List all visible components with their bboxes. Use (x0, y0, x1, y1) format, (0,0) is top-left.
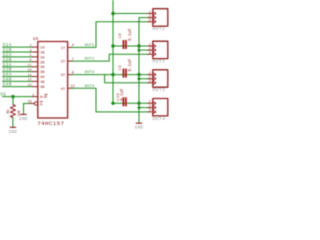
wire C10 row (+5V to GND, OUT4 pin1 feed) (113, 102, 149, 104)
capacitor C10 (123, 97, 127, 106)
svg-text:3B: 3B (40, 71, 45, 75)
svg-text:SG: SG (0, 94, 6, 98)
svg-text:1: 1 (32, 94, 34, 98)
svg-text:4A: 4A (40, 76, 45, 80)
svg-text:0.1uF: 0.1uF (121, 88, 125, 101)
wire C8 row (+5V to GND, OUT2 pin1 feed) (113, 45, 149, 47)
svg-text:3: 3 (30, 48, 32, 52)
pin 2 stub (33, 46, 38, 48)
svg-text:S1B: S1B (3, 49, 12, 53)
wire +5V to OUT1 pin1 (113, 13, 149, 15)
capacitor C9 (123, 69, 127, 78)
junction C10 right (137, 102, 140, 105)
junction on select net (11, 95, 14, 98)
resistor R9 (10, 105, 15, 118)
wire S4A row y=76.5 (3, 76, 33, 78)
wire OUT3 from 3Y (73, 75, 149, 83)
svg-text:11: 11 (28, 63, 32, 67)
wire S2A row y=56.9 (3, 56, 33, 58)
junction GND rail (138, 77, 141, 80)
svg-text:OUT3: OUT3 (152, 87, 165, 93)
junction GND rail (138, 49, 141, 52)
svg-text:0.1uF: 0.1uF (129, 28, 133, 41)
junction C8 right (137, 44, 140, 47)
junction GND rail (138, 106, 141, 109)
svg-text:GND: GND (9, 131, 18, 135)
wire C9 row (+5V to GND, OUT3 pin1 feed) (105, 74, 149, 76)
pin 9 stub (3Y) (68, 74, 73, 76)
connector OUT4 (148, 99, 168, 116)
pin 14 stub (33, 76, 38, 78)
junction +5V / OUT1 feed (111, 12, 114, 15)
wire S4B row y=81.4 (3, 80, 33, 82)
junction C9 left (111, 73, 114, 76)
svg-text:3: 3 (149, 108, 151, 112)
svg-text:OUT2: OUT2 (85, 58, 95, 62)
svg-text:1B: 1B (40, 52, 45, 56)
wire select to resistor (12, 97, 14, 105)
pin 3 stub (33, 51, 38, 53)
svg-text:R9: R9 (7, 109, 11, 113)
wire +5V rail (112, 0, 114, 103)
svg-text:14: 14 (28, 73, 32, 77)
svg-text:OUT4: OUT4 (152, 116, 165, 122)
ground symbol at rail bottom (135, 123, 144, 130)
junction C8 left (111, 44, 114, 47)
svg-text:6: 6 (30, 58, 32, 62)
svg-text:13: 13 (28, 83, 32, 87)
svg-text:2B: 2B (40, 61, 45, 65)
svg-text:4B: 4B (40, 81, 45, 85)
svg-text:OUT2: OUT2 (152, 59, 165, 65)
svg-text:13: 13 (28, 78, 32, 82)
ground symbol below resistor (9, 127, 18, 135)
wire GND to OUT1 pin2 (139, 17, 149, 19)
svg-text:OUT1: OUT1 (152, 26, 165, 32)
svg-text:S3A: S3A (3, 64, 12, 68)
pin 7 stub (2Y) (68, 60, 73, 62)
connector OUT2 (148, 41, 168, 58)
svg-text:C8: C8 (119, 33, 123, 39)
svg-text:2A: 2A (40, 56, 45, 60)
svg-text:3: 3 (149, 18, 151, 22)
wire GND to OUT3 pin2 (139, 78, 149, 80)
connector OUT3 (148, 70, 168, 87)
svg-text:74HC157: 74HC157 (37, 120, 64, 127)
pin 6 stub (33, 61, 38, 63)
svg-text:S4A: S4A (3, 74, 12, 78)
svg-text:2Y: 2Y (61, 61, 66, 65)
svg-text:S4B: S4B (3, 79, 12, 83)
svg-text:5: 5 (30, 53, 32, 57)
svg-text:S3B: S3B (3, 69, 12, 73)
pin 4 stub (1Y) (68, 46, 73, 48)
pin 11 stub (33, 66, 38, 68)
svg-text:GND: GND (135, 126, 144, 130)
svg-text:1Y: 1Y (61, 47, 66, 51)
wire OUT4 from 4Y (73, 88, 149, 112)
svg-text:C9: C9 (119, 65, 123, 71)
svg-text:GND: GND (19, 118, 28, 122)
pin 13 stub (33, 80, 38, 82)
svg-text:3A: 3A (40, 66, 45, 70)
svg-text:OUT3: OUT3 (85, 71, 95, 75)
svg-text:10: 10 (28, 68, 32, 72)
junction C9 right (137, 73, 140, 76)
pin 1 stub (33, 96, 38, 98)
wire to pin 15 (24, 103, 31, 105)
pin 5 stub (33, 56, 38, 58)
wire OUT1 from 1Y (73, 22, 149, 48)
svg-text:0.1uF: 0.1uF (129, 58, 133, 71)
pin 12 stub (4Y) (68, 87, 73, 89)
svg-text:1A: 1A (40, 47, 45, 51)
svg-text:A/B: A/B (40, 95, 48, 100)
wire S2B row y=61.8 (3, 61, 33, 63)
svg-text:4Y: 4Y (61, 88, 66, 92)
svg-text:S4B: S4B (3, 84, 12, 88)
wire GND to OUT2 pin2 (139, 49, 149, 51)
ground symbol at pin 15 (19, 114, 28, 122)
svg-text:3: 3 (149, 51, 151, 55)
svg-text:4B: 4B (40, 86, 45, 90)
wire select net SG (3, 96, 34, 98)
wire resistor to ground (12, 118, 14, 127)
svg-text:15: 15 (28, 101, 32, 105)
wire pin15 down to ground (23, 104, 25, 114)
junction C10 left (111, 102, 114, 105)
wire OUT2 from 2Y (73, 54, 149, 61)
wire S1B row y=52.0 (3, 51, 33, 53)
svg-text:10K: 10K (18, 109, 22, 116)
svg-text:3: 3 (149, 79, 151, 83)
IC U4 74HC157 box (38, 42, 68, 119)
svg-text:OUT4: OUT4 (85, 85, 95, 89)
pin 15 stub with inverter bubble (30, 102, 38, 105)
wire GND rail (138, 18, 140, 123)
svg-text:2: 2 (30, 43, 32, 47)
wire S3B row y=71.6 (3, 71, 33, 73)
svg-text:OUT1: OUT1 (85, 44, 95, 48)
svg-text:3Y: 3Y (61, 74, 66, 78)
capacitor C8 (123, 40, 127, 49)
wire S1A row y=47.1 (3, 46, 33, 48)
connector OUT1 (148, 9, 168, 26)
wire GND to OUT4 pin2 (139, 107, 149, 109)
pin 10 stub (33, 71, 38, 73)
wire S3A row y=66.7 (3, 66, 33, 68)
svg-text:U4: U4 (33, 37, 39, 42)
svg-text:S2A: S2A (3, 54, 12, 58)
svg-text:S1A: S1A (3, 44, 12, 48)
pin 13 stub (33, 86, 38, 88)
wire S4B row y=86.6 (3, 86, 33, 88)
svg-text:S2B: S2B (3, 59, 12, 63)
